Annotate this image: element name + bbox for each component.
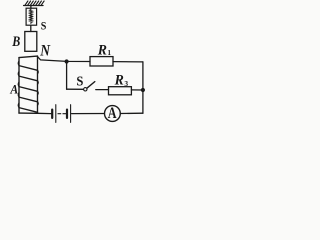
switch lever <box>87 82 95 89</box>
svg-text:A: A <box>108 105 117 122</box>
coil top edge <box>19 56 38 58</box>
wire switch to R2 <box>96 89 109 91</box>
winding 1 <box>19 66 38 71</box>
wire switch branch horizontal <box>67 88 84 90</box>
node junction left <box>65 59 69 63</box>
battery cell 1 short plate <box>51 110 53 118</box>
winding left hooks <box>17 61 20 108</box>
wire R1 to right corner <box>113 61 143 63</box>
ammeter body <box>105 106 121 122</box>
svg-text:3: 3 <box>124 79 128 88</box>
battery cell 1 long plate <box>55 105 57 123</box>
svg-text:R: R <box>97 42 107 58</box>
resistor R2 <box>109 87 132 95</box>
svg-text:1: 1 <box>107 48 111 57</box>
wire ammeter to right corner <box>120 112 143 114</box>
coil A (solenoid) <box>18 56 38 113</box>
magnet B <box>25 32 37 52</box>
winding 4 <box>19 97 38 102</box>
coil left edge <box>18 58 20 114</box>
svg-text:S: S <box>41 19 47 33</box>
wire switch branch vertical <box>66 62 68 90</box>
spring <box>30 9 33 24</box>
svg-text:R: R <box>114 72 124 88</box>
wire right vertical <box>142 62 144 113</box>
winding right hooks <box>37 70 40 105</box>
hanger rod <box>30 6 32 9</box>
battery cell 2 long plate <box>70 105 72 123</box>
battery cell 2 short plate <box>66 110 68 118</box>
resistor R1 <box>90 57 113 66</box>
coil bottom edge <box>19 112 38 114</box>
winding 3 <box>19 87 38 92</box>
connector rod <box>30 25 32 31</box>
winding 2 <box>19 76 38 81</box>
spring box <box>26 8 36 25</box>
switch S pivot <box>84 88 87 91</box>
ceiling hatching <box>25 1 44 5</box>
wire coil top to R1 <box>37 57 90 62</box>
wire coil bottom to battery <box>38 112 52 114</box>
svg-text:A: A <box>9 83 18 97</box>
battery dashed link <box>58 113 66 115</box>
wire R2 to right vertical <box>131 89 143 91</box>
winding 5 <box>19 108 38 113</box>
svg-text:S: S <box>76 75 83 90</box>
svg-text:N: N <box>39 43 50 60</box>
node junction right <box>141 88 145 92</box>
wire battery to ammeter <box>72 113 105 115</box>
ceiling line <box>24 5 43 7</box>
svg-text:B: B <box>11 34 20 50</box>
coil right edge <box>37 56 39 113</box>
